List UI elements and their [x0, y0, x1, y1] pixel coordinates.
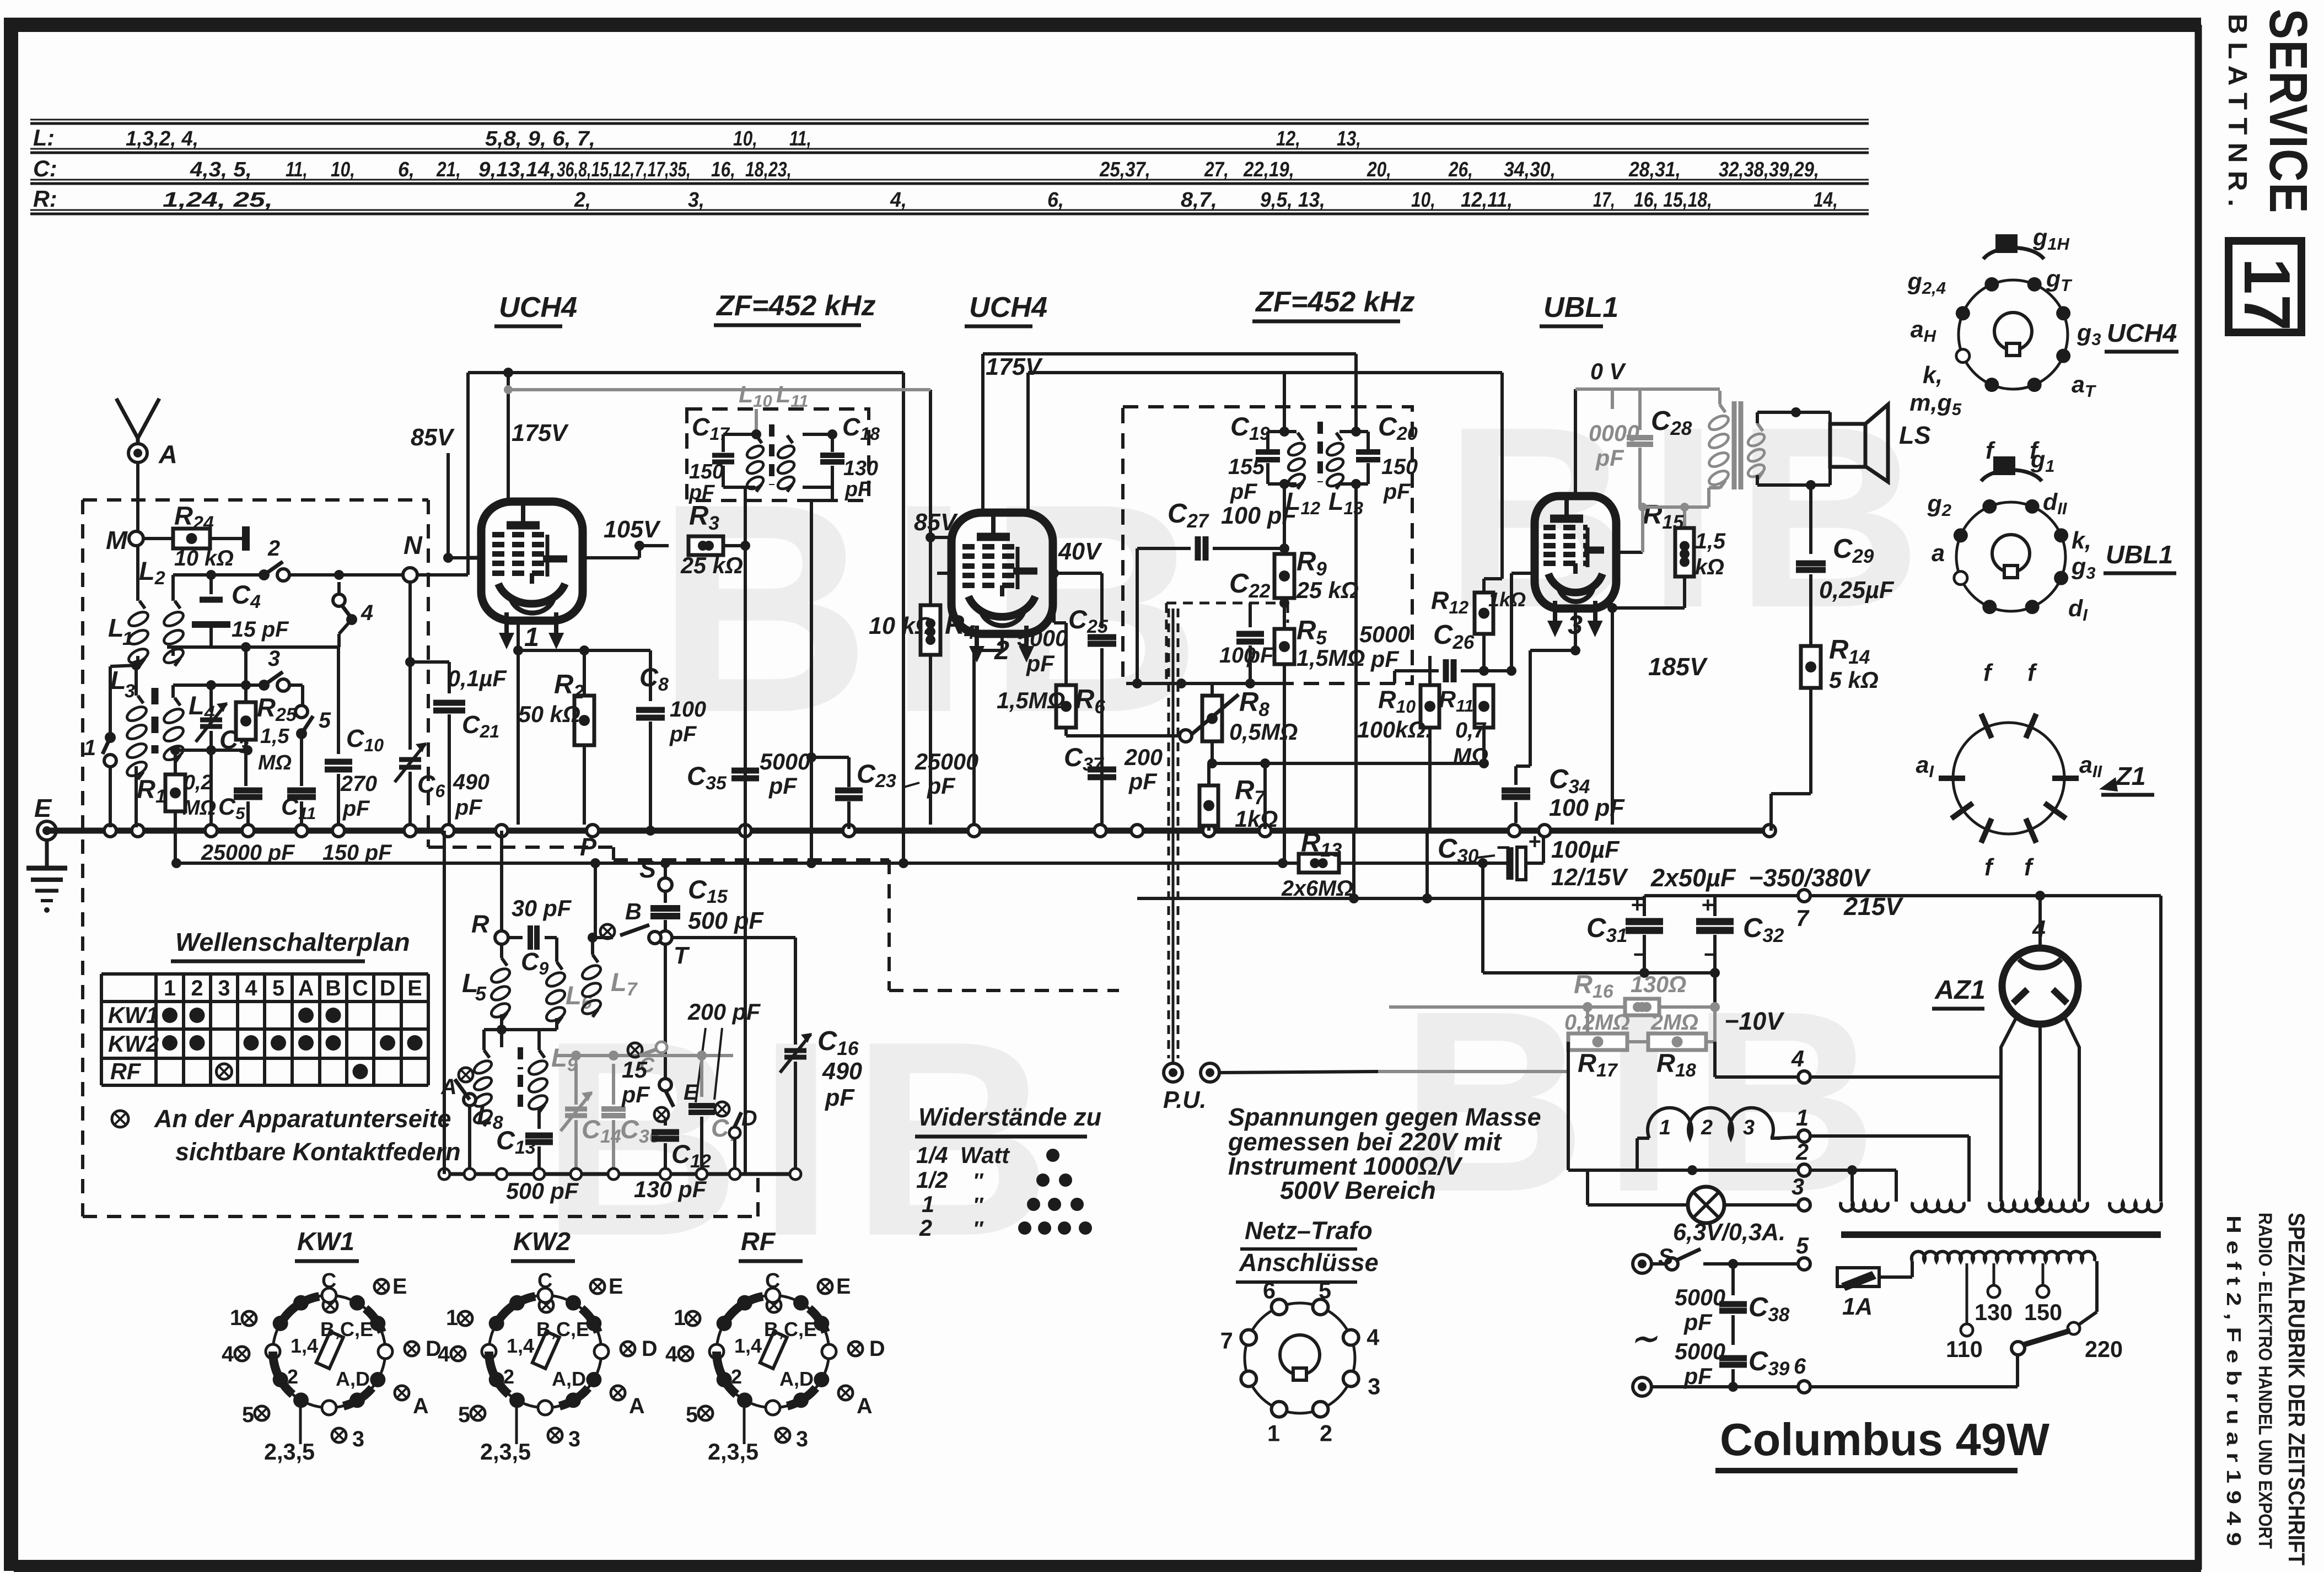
IF2 dashed box — [1123, 407, 1412, 683]
svg-text:1kΩ: 1kΩ — [1488, 588, 1526, 611]
core dashes L3-L4 — [152, 688, 159, 753]
svg-text:pF: pF — [1230, 480, 1258, 504]
svg-text:SERVICE: SERVICE — [2258, 9, 2318, 214]
svg-text:2: 2 — [731, 1365, 742, 1388]
bus junction — [205, 825, 217, 837]
svg-text:5000: 5000 — [1017, 626, 1068, 651]
svg-text:″: ″ — [973, 1218, 984, 1241]
svg-text:pF: pF — [455, 795, 483, 820]
svg-text:L: L — [110, 666, 126, 695]
svg-text:10 kΩ: 10 kΩ — [174, 546, 234, 570]
svg-text:1,5: 1,5 — [1695, 529, 1726, 553]
resistor R17 — [1558, 1041, 1588, 1042]
svg-text:UCH4: UCH4 — [969, 292, 1047, 324]
svg-text:B: B — [325, 976, 341, 1000]
capacitor C17 — [712, 453, 734, 458]
wire tube2 cathode down — [1000, 634, 1004, 650]
antenna — [116, 399, 138, 438]
svg-text:3: 3 — [1743, 1116, 1755, 1139]
svg-text:6: 6 — [1794, 1354, 1806, 1379]
svg-text:2x50µF: 2x50µF — [1650, 864, 1736, 892]
coil L13 — [1336, 433, 1342, 440]
svg-text:14,: 14, — [1814, 189, 1838, 212]
svg-text:10,: 10, — [1411, 189, 1435, 212]
svg-text:4: 4 — [438, 1342, 450, 1366]
wire C3 col to bus — [209, 750, 213, 825]
svg-text:1,5MΩ: 1,5MΩ — [997, 688, 1065, 713]
svg-text:130Ω: 130Ω — [1631, 972, 1686, 997]
svg-text:pF: pF — [1026, 651, 1055, 676]
svg-text:6,: 6, — [1047, 189, 1064, 212]
svg-text:C: C — [352, 976, 368, 1000]
resistor R12 — [1475, 593, 1493, 634]
wire AZ1 heater tap — [2038, 1191, 2041, 1202]
svg-text:12,: 12, — [1276, 127, 1300, 150]
svg-text:∼: ∼ — [1631, 1321, 1658, 1356]
resistor R6 — [1064, 623, 1068, 685]
svg-text:15: 15 — [622, 1057, 648, 1083]
svg-text:Columbus 49W: Columbus 49W — [1720, 1414, 2050, 1465]
wire L13 down — [1354, 484, 1358, 829]
capacitor C29 — [1809, 484, 1812, 554]
svg-text:1: 1 — [164, 976, 176, 1000]
top rail left — [468, 371, 903, 374]
svg-text:UCH4: UCH4 — [499, 292, 577, 324]
svg-text:KW2: KW2 — [513, 1227, 571, 1256]
output transformer — [1720, 405, 1725, 412]
IF1 node top — [751, 429, 761, 439]
svg-text:−: − — [1496, 835, 1510, 861]
parts table rules — [30, 122, 1869, 125]
capacitor C23 — [806, 752, 816, 762]
svg-text:A: A — [298, 976, 314, 1000]
capacitor C26 — [1395, 669, 1439, 672]
svg-text:2: 2 — [191, 976, 203, 1000]
wire IF1 sec down — [831, 487, 834, 500]
bus junction — [104, 825, 116, 837]
svg-text:A,D: A,D — [552, 1368, 586, 1390]
tap 150 — [2042, 1263, 2045, 1284]
bus junction — [1763, 825, 1776, 837]
svg-text:9,5, 13,: 9,5, 13, — [1260, 189, 1325, 212]
osc bus junction — [608, 1169, 619, 1180]
svg-text:R: R — [471, 910, 489, 938]
switch contact B — [595, 936, 613, 939]
HT rail 215V — [1137, 897, 1644, 900]
mains terminal 2 — [1633, 1377, 1651, 1396]
svg-text:S: S — [639, 855, 656, 883]
svg-text:28,31,: 28,31, — [1628, 158, 1681, 181]
svg-text:2MΩ: 2MΩ — [1650, 1010, 1698, 1035]
svg-text:4: 4 — [222, 1342, 234, 1366]
svg-text:ZF=452 kHz: ZF=452 kHz — [1255, 286, 1415, 318]
capacitor C20 — [1356, 449, 1380, 455]
svg-text:B: B — [625, 899, 642, 924]
svg-text:16, 15,18,: 16, 15,18, — [1634, 189, 1712, 212]
wire N line — [173, 573, 261, 577]
bus junction — [496, 825, 508, 837]
bus junction — [442, 825, 454, 837]
wire osc bus left up — [443, 831, 446, 1174]
svg-text:200 pF: 200 pF — [687, 999, 761, 1025]
svg-text:85V: 85V — [411, 424, 455, 451]
svg-text:25000: 25000 — [914, 749, 978, 774]
rail2 mid — [1028, 371, 1502, 374]
svg-text:34,30,: 34,30, — [1504, 158, 1556, 181]
node 3 — [1798, 1199, 1810, 1211]
svg-text:L:: L: — [33, 125, 55, 150]
svg-text:130 pF: 130 pF — [634, 1177, 707, 1202]
svg-text:36,8,15,12,7,17,35,: 36,8,15,12,7,17,35, — [557, 158, 691, 181]
svg-text:1: 1 — [1796, 1105, 1809, 1130]
capacitor C22 — [1249, 603, 1252, 627]
svg-text:500 pF: 500 pF — [506, 1178, 579, 1204]
capacitor C25 — [1088, 634, 1116, 640]
svg-text:2,3,5: 2,3,5 — [480, 1439, 531, 1465]
bus junction — [295, 825, 308, 837]
tap 130 — [1993, 1263, 1995, 1284]
coil L9 — [537, 1030, 541, 1050]
svg-text:Watt: Watt — [960, 1143, 1010, 1168]
svg-text:5000: 5000 — [1675, 1339, 1725, 1364]
switch contact 5 — [295, 706, 308, 718]
voltage selector lever — [2011, 1342, 2025, 1355]
svg-text:40V: 40V — [1058, 539, 1102, 565]
capacitor C18 — [820, 453, 844, 458]
oscillator bus — [444, 1172, 795, 1176]
capacitor C15 — [664, 891, 667, 903]
issue number box 17 — [2229, 241, 2301, 332]
svg-text:5: 5 — [458, 1403, 470, 1427]
wire 185V line — [1611, 608, 1614, 825]
rectifier tube AZ1 — [2002, 948, 2078, 1024]
mains primary winding — [1912, 1252, 2095, 1261]
wire R15 link — [1616, 551, 1643, 554]
svg-text:130: 130 — [1975, 1300, 2013, 1325]
core dashes IF2 — [1317, 422, 1323, 482]
resistor R1 — [174, 750, 177, 774]
wire L12 down — [1283, 484, 1286, 554]
svg-text:Netz–Trafo: Netz–Trafo — [1245, 1216, 1373, 1245]
svg-text:9,13,14,: 9,13,14, — [478, 158, 556, 181]
svg-text:D: D — [869, 1337, 885, 1361]
node S — [659, 878, 672, 891]
junction L1-L3 — [131, 660, 141, 670]
svg-text:L: L — [108, 613, 124, 642]
resistor R11 — [1475, 685, 1493, 728]
wire y1385 row — [1209, 762, 1484, 765]
svg-text:pF: pF — [1595, 445, 1624, 471]
capacitor C5 — [234, 788, 262, 794]
svg-text:0,1µF: 0,1µF — [448, 666, 507, 691]
svg-text:1: 1 — [84, 736, 96, 760]
ground bus (chassis rail) — [47, 828, 1771, 834]
svg-text:C:: C: — [33, 156, 57, 181]
svg-text:D: D — [642, 1337, 658, 1361]
wave-switch table — [101, 972, 428, 976]
svg-text:pF: pF — [1128, 769, 1158, 794]
AZ1 leads — [2038, 896, 2042, 949]
wire UBL1 cathode — [1574, 609, 1577, 650]
HV secondary windings — [1841, 1202, 1888, 1211]
svg-text:pF: pF — [621, 1082, 650, 1107]
resistor R8 (volume pot) — [1211, 683, 1214, 696]
svg-text:0 V: 0 V — [1590, 359, 1627, 384]
coil L4 — [171, 685, 175, 698]
node 7 — [1798, 890, 1810, 902]
svg-text:H e f t 2 , F e b r u a r: H e f t 2 , F e b r u a r 1 9 4 9 — [2223, 1215, 2245, 1546]
svg-text:B,C,E: B,C,E — [764, 1318, 817, 1340]
svg-text:3: 3 — [218, 976, 230, 1000]
svg-text:1: 1 — [524, 622, 539, 652]
svg-text:50 kΩ: 50 kΩ — [518, 702, 580, 727]
svg-text:An der Apparatunterseite: An der Apparatunterseite — [154, 1105, 451, 1133]
svg-text:kΩ: kΩ — [1695, 555, 1724, 579]
svg-text:150: 150 — [689, 460, 724, 483]
node 5 — [1798, 1258, 1810, 1270]
wire T right to C16 — [672, 936, 795, 939]
wire -10V drop — [1567, 1042, 1570, 1170]
coil L3 — [138, 696, 143, 703]
svg-text:RADIO - ELEKTRO HANDEL UND: RADIO - ELEKTRO HANDEL UND EXPORT — [2255, 1213, 2275, 1549]
IF1 dashed box — [687, 409, 869, 500]
svg-text:0,2MΩ: 0,2MΩ — [1564, 1010, 1630, 1035]
wire tube2 grid left — [937, 572, 951, 575]
svg-text:27,: 27, — [1204, 158, 1229, 181]
capacitor C21 — [410, 660, 449, 664]
tap 220 — [2068, 1322, 2080, 1334]
heater winding 1-2-3 — [1636, 1138, 1639, 1170]
svg-text:Wellenschalterplan: Wellenschalterplan — [175, 928, 410, 956]
svg-text:5: 5 — [686, 1403, 698, 1427]
switch contact D — [715, 1102, 729, 1116]
node 2 — [1798, 1164, 1810, 1176]
svg-text:pF: pF — [1370, 647, 1400, 672]
svg-text:R:: R: — [33, 186, 57, 212]
svg-text:RF: RF — [741, 1227, 776, 1256]
switch-3 row — [173, 683, 261, 687]
bus junction — [1131, 825, 1143, 837]
core dashes IF1 — [769, 424, 774, 485]
svg-text:215V: 215V — [1843, 892, 1904, 920]
svg-text:A: A — [158, 440, 177, 469]
svg-text:10 kΩ: 10 kΩ — [869, 613, 934, 639]
capacitor C38 — [1731, 1264, 1735, 1295]
node N — [403, 568, 417, 582]
svg-text:E: E — [34, 794, 52, 822]
resistor R14 — [1801, 646, 1821, 688]
core dashes L8-L9 — [518, 1047, 523, 1069]
svg-text:5000: 5000 — [1359, 622, 1410, 647]
variable capacitor C14 — [565, 1107, 587, 1112]
svg-text:105V: 105V — [604, 516, 661, 543]
svg-text:Anschlüsse: Anschlüsse — [1239, 1248, 1379, 1277]
svg-text:1: 1 — [922, 1192, 934, 1217]
svg-text:3: 3 — [1368, 1374, 1380, 1399]
coil L2 — [171, 575, 175, 601]
svg-text:UBL1: UBL1 — [2106, 540, 2173, 569]
bus junction — [739, 825, 751, 837]
svg-text:1/4: 1/4 — [916, 1143, 948, 1168]
svg-text:17,: 17, — [1593, 189, 1615, 212]
capacitor C11 — [300, 734, 303, 786]
svg-text:pF: pF — [669, 722, 697, 746]
svg-text:KW2: KW2 — [108, 1031, 159, 1057]
wire 40V node — [1054, 572, 1102, 575]
svg-text:Widerstände zu: Widerstände zu — [918, 1103, 1101, 1131]
svg-text:7: 7 — [1796, 906, 1810, 931]
ground symbol — [45, 840, 49, 867]
svg-text:2: 2 — [1795, 1139, 1809, 1165]
capacitor C35 — [731, 768, 759, 774]
socket diagram UCH4 — [1959, 280, 2068, 389]
wire B up — [594, 863, 597, 938]
svg-text:S: S — [1658, 1244, 1674, 1269]
svg-text:1,4: 1,4 — [734, 1334, 762, 1357]
svg-text:A: A — [857, 1394, 873, 1418]
resistor R24 — [143, 537, 173, 540]
svg-text:25 kΩ: 25 kΩ — [1296, 578, 1359, 603]
bus junction — [968, 825, 980, 837]
svg-text:0,2: 0,2 — [184, 771, 213, 794]
svg-text:500 pF: 500 pF — [688, 908, 764, 934]
svg-text:2,3,5: 2,3,5 — [708, 1439, 758, 1465]
svg-text:1: 1 — [674, 1306, 686, 1330]
svg-text:E: E — [609, 1274, 623, 1299]
svg-text:1,3,2, 4,: 1,3,2, 4, — [126, 127, 198, 150]
svg-text:3: 3 — [796, 1427, 808, 1451]
tube U2 UCH4 — [951, 513, 1053, 634]
svg-text:6,: 6, — [398, 158, 415, 181]
wire N down — [408, 582, 412, 662]
wire L4 bottom row — [171, 747, 175, 750]
svg-text:B,C,E: B,C,E — [320, 1318, 373, 1340]
wire R17R18 row — [1586, 1007, 1589, 1042]
shielded pair to PU — [1168, 609, 1170, 1058]
svg-text:pF: pF — [825, 1085, 855, 1111]
svg-text:22,19,: 22,19, — [1243, 158, 1294, 181]
capacitor C31 — [1643, 896, 1646, 916]
svg-text:−10V: −10V — [1724, 1007, 1785, 1035]
svg-text:11,: 11, — [789, 127, 811, 150]
coil L1 — [136, 546, 139, 601]
osc bus junction — [571, 1169, 582, 1180]
svg-text:1A: 1A — [1842, 1294, 1873, 1320]
top rail mid — [983, 352, 1356, 356]
svg-text:1,4: 1,4 — [507, 1334, 534, 1357]
svg-text:1: 1 — [122, 628, 133, 649]
osc bus junction — [790, 1169, 801, 1180]
svg-text:2,: 2, — [574, 189, 591, 212]
svg-text:1,5: 1,5 — [260, 725, 290, 748]
svg-text:A,D: A,D — [779, 1368, 814, 1390]
terminal A — [128, 444, 147, 462]
svg-text:10,: 10, — [733, 127, 757, 150]
wire N to tube1 grid — [417, 573, 468, 577]
svg-text:25 kΩ: 25 kΩ — [680, 553, 743, 578]
capacitor C34 — [1514, 766, 1518, 785]
svg-text:E: E — [836, 1274, 851, 1299]
svg-text:3: 3 — [125, 681, 135, 702]
svg-text:10,: 10, — [331, 158, 355, 181]
svg-text:5000: 5000 — [760, 749, 810, 774]
osc bus junction — [464, 1169, 475, 1180]
svg-text:150: 150 — [2024, 1300, 2062, 1325]
svg-text:5: 5 — [475, 982, 487, 1005]
node T — [659, 931, 672, 944]
coil L11 — [787, 435, 793, 443]
svg-text:P: P — [580, 833, 597, 861]
svg-text:0,25µF: 0,25µF — [1819, 577, 1895, 604]
svg-text:12/15V: 12/15V — [1551, 864, 1628, 891]
svg-text:B,C,E: B,C,E — [536, 1318, 589, 1340]
svg-text:155: 155 — [1228, 455, 1265, 479]
svg-text:UBL1: UBL1 — [1543, 292, 1618, 324]
svg-text:pF: pF — [1383, 480, 1411, 504]
svg-text:100 pF: 100 pF — [1549, 795, 1625, 821]
variable capacitor C16 — [784, 1048, 806, 1053]
svg-text:3: 3 — [568, 1427, 580, 1451]
svg-text:2: 2 — [503, 1365, 514, 1388]
fuse 1A — [1837, 1268, 1879, 1286]
bus junction — [843, 825, 855, 837]
svg-text:5: 5 — [1796, 1233, 1809, 1258]
wire tube1 plate to rail — [507, 446, 510, 503]
capacitor C22 shield box — [1166, 602, 1288, 605]
bus junction — [242, 825, 254, 837]
svg-text:2: 2 — [267, 536, 280, 561]
node R — [495, 931, 508, 944]
capacitor C36 — [601, 1106, 626, 1112]
svg-text:4,: 4, — [890, 189, 907, 212]
tube U1 UCH4 — [481, 502, 583, 621]
svg-text:15 pF: 15 pF — [232, 617, 289, 642]
svg-text:−350/380V: −350/380V — [1749, 864, 1871, 892]
bus junction — [587, 825, 599, 837]
svg-text:500V Bereich: 500V Bereich — [1280, 1176, 1436, 1204]
svg-text:20,: 20, — [1367, 158, 1391, 181]
svg-text:100kΩ.: 100kΩ. — [1357, 717, 1432, 742]
svg-text:17: 17 — [2230, 258, 2304, 331]
svg-text:85V: 85V — [914, 509, 958, 536]
svg-text:2: 2 — [1701, 1116, 1713, 1139]
capacitor C28 — [1638, 391, 1642, 430]
svg-text:1kΩ: 1kΩ — [1235, 806, 1278, 832]
svg-text:5 kΩ: 5 kΩ — [1829, 667, 1879, 693]
svg-text:150 pF: 150 pF — [322, 841, 392, 865]
wire R6 top — [1054, 621, 1066, 625]
svg-text:5000: 5000 — [1675, 1285, 1725, 1310]
svg-text:″: ″ — [973, 1170, 984, 1193]
osc bus junction — [439, 1169, 450, 1180]
resistor R18 — [1648, 1033, 1706, 1050]
bus junction — [1538, 825, 1551, 837]
resistor R16 — [1389, 1005, 1625, 1009]
svg-text:−: − — [1703, 943, 1716, 967]
power transformer socket — [1245, 1303, 1355, 1413]
capacitor C13 — [537, 1108, 541, 1129]
bus junction — [1094, 825, 1106, 837]
svg-text:100: 100 — [670, 697, 706, 722]
socket diagram AZ1 — [1953, 723, 2064, 834]
svg-text:pF: pF — [768, 773, 798, 799]
svg-text:D: D — [380, 976, 396, 1000]
svg-text:BIB: BIB — [1444, 373, 1938, 661]
lamp 6.3V — [1586, 1170, 1589, 1205]
resistor R13 — [1299, 854, 1339, 873]
tube U3 UBL1 — [1535, 496, 1616, 609]
bus junction — [1508, 825, 1520, 837]
